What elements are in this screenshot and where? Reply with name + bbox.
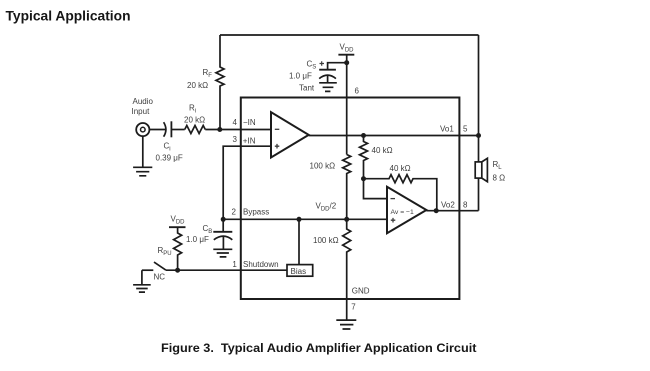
node 40k top [361, 133, 366, 138]
svg-text:100 kΩ: 100 kΩ [310, 162, 336, 171]
node 40k bottom [361, 176, 366, 181]
node bias tap [297, 217, 302, 222]
svg-text:CB: CB [203, 224, 213, 235]
svg-text:RPU: RPU [158, 246, 172, 257]
svg-text:NC: NC [154, 272, 166, 281]
wire Vo1 [309, 135, 479, 137]
node Vo1/speaker [476, 133, 481, 138]
svg-text:GND: GND [352, 286, 370, 295]
resistor 40k feedback horizontal [364, 175, 437, 211]
wire pin3 to bypass node [223, 146, 271, 219]
resistor 100k lower [343, 219, 351, 299]
svg-text:Figure 3. Typical Audio Ampli: Figure 3. Typical Audio Amplifier Applic… [161, 341, 477, 355]
wire right drop to Vo1 node [478, 35, 480, 162]
svg-text:Audio: Audio [133, 97, 154, 106]
ground below CS [319, 83, 337, 92]
wire Ri to pin4 [205, 129, 271, 131]
capacitor CS [319, 69, 336, 71]
node shutdown [175, 268, 180, 273]
svg-text:Vo1: Vo1 [440, 124, 454, 133]
svg-text:40 kΩ: 40 kΩ [372, 146, 393, 155]
svg-text:Tant: Tant [299, 84, 315, 93]
wire bypass [223, 218, 387, 220]
resistor RPU [174, 227, 182, 270]
svg-text:1: 1 [232, 260, 237, 269]
node VDD/CS [344, 60, 349, 65]
wire speaker bottom to Vo2 [478, 178, 480, 211]
svg-text:Av = −1: Av = −1 [391, 209, 415, 216]
switch S1 [142, 269, 153, 271]
wire Vo2 [426, 210, 478, 212]
resistor Ri [185, 126, 206, 134]
bias box [287, 265, 313, 277]
resistor RF [216, 35, 224, 130]
IC box U1 [241, 98, 460, 300]
wire pin 7 [346, 299, 348, 320]
svg-text:40 kΩ: 40 kΩ [390, 164, 411, 173]
ground pin 7 [336, 320, 356, 329]
audio input jack J1 [136, 123, 149, 136]
svg-text:Ci: Ci [164, 141, 171, 152]
svg-text:0.39 μF: 0.39 μF [156, 154, 183, 163]
svg-text:20 kΩ: 20 kΩ [184, 116, 205, 125]
svg-text:Typical Application: Typical Application [6, 9, 131, 24]
wire bias to bypass [298, 219, 300, 264]
svg-text:+IN: +IN [243, 137, 256, 146]
svg-text:Shutdown: Shutdown [243, 260, 279, 269]
ground below jack [133, 136, 152, 176]
ground below CB [213, 249, 232, 257]
resistor 100k upper [343, 155, 351, 220]
wire Ci to Ri [171, 129, 184, 131]
wire jack to Ci [149, 129, 166, 131]
svg-text:Ri: Ri [189, 104, 196, 115]
capacitor CB [222, 219, 224, 232]
op-amp U1B [387, 187, 426, 233]
node bypass/CB [221, 217, 226, 222]
wire to CS [328, 63, 347, 70]
wire shutdown [166, 269, 287, 271]
svg-text:4: 4 [233, 118, 238, 127]
svg-text:100 kΩ: 100 kΩ [313, 236, 339, 245]
svg-text:3: 3 [233, 135, 238, 144]
svg-text:RF: RF [203, 68, 213, 79]
op-amp U1A [271, 112, 309, 157]
capacitor Ci [164, 122, 166, 137]
wire minus input op2 [364, 179, 388, 199]
svg-text:Vo2: Vo2 [441, 200, 455, 209]
svg-text:RL: RL [493, 160, 503, 171]
svg-text:6: 6 [355, 86, 360, 95]
svg-text:2: 2 [232, 207, 237, 216]
svg-text:CS: CS [307, 60, 317, 71]
resistor 40k vertical [360, 136, 368, 179]
svg-text:−IN: −IN [243, 118, 256, 127]
node Vo2 [434, 208, 439, 213]
wire top rail [220, 34, 479, 36]
svg-text:VDD: VDD [171, 215, 186, 226]
svg-text:1.0 μF: 1.0 μF [186, 235, 209, 244]
node junction RF/Ri [217, 127, 222, 132]
speaker RL [475, 162, 482, 178]
node VDD/2 [344, 217, 349, 222]
svg-text:Bias: Bias [291, 267, 307, 276]
svg-text:20 kΩ: 20 kΩ [187, 81, 208, 90]
svg-text:8 Ω: 8 Ω [493, 173, 506, 182]
svg-text:8: 8 [463, 200, 468, 209]
svg-text:VDD/2: VDD/2 [316, 202, 337, 213]
wire VDD to pin6 and internal rail [346, 55, 348, 155]
ground below switch [133, 270, 151, 292]
svg-text:7: 7 [351, 303, 356, 312]
svg-text:5: 5 [463, 124, 468, 133]
svg-text:Input: Input [132, 107, 151, 116]
svg-text:VDD: VDD [340, 43, 355, 54]
svg-text:1.0 μF: 1.0 μF [289, 72, 312, 81]
svg-text:Bypass: Bypass [243, 207, 269, 216]
